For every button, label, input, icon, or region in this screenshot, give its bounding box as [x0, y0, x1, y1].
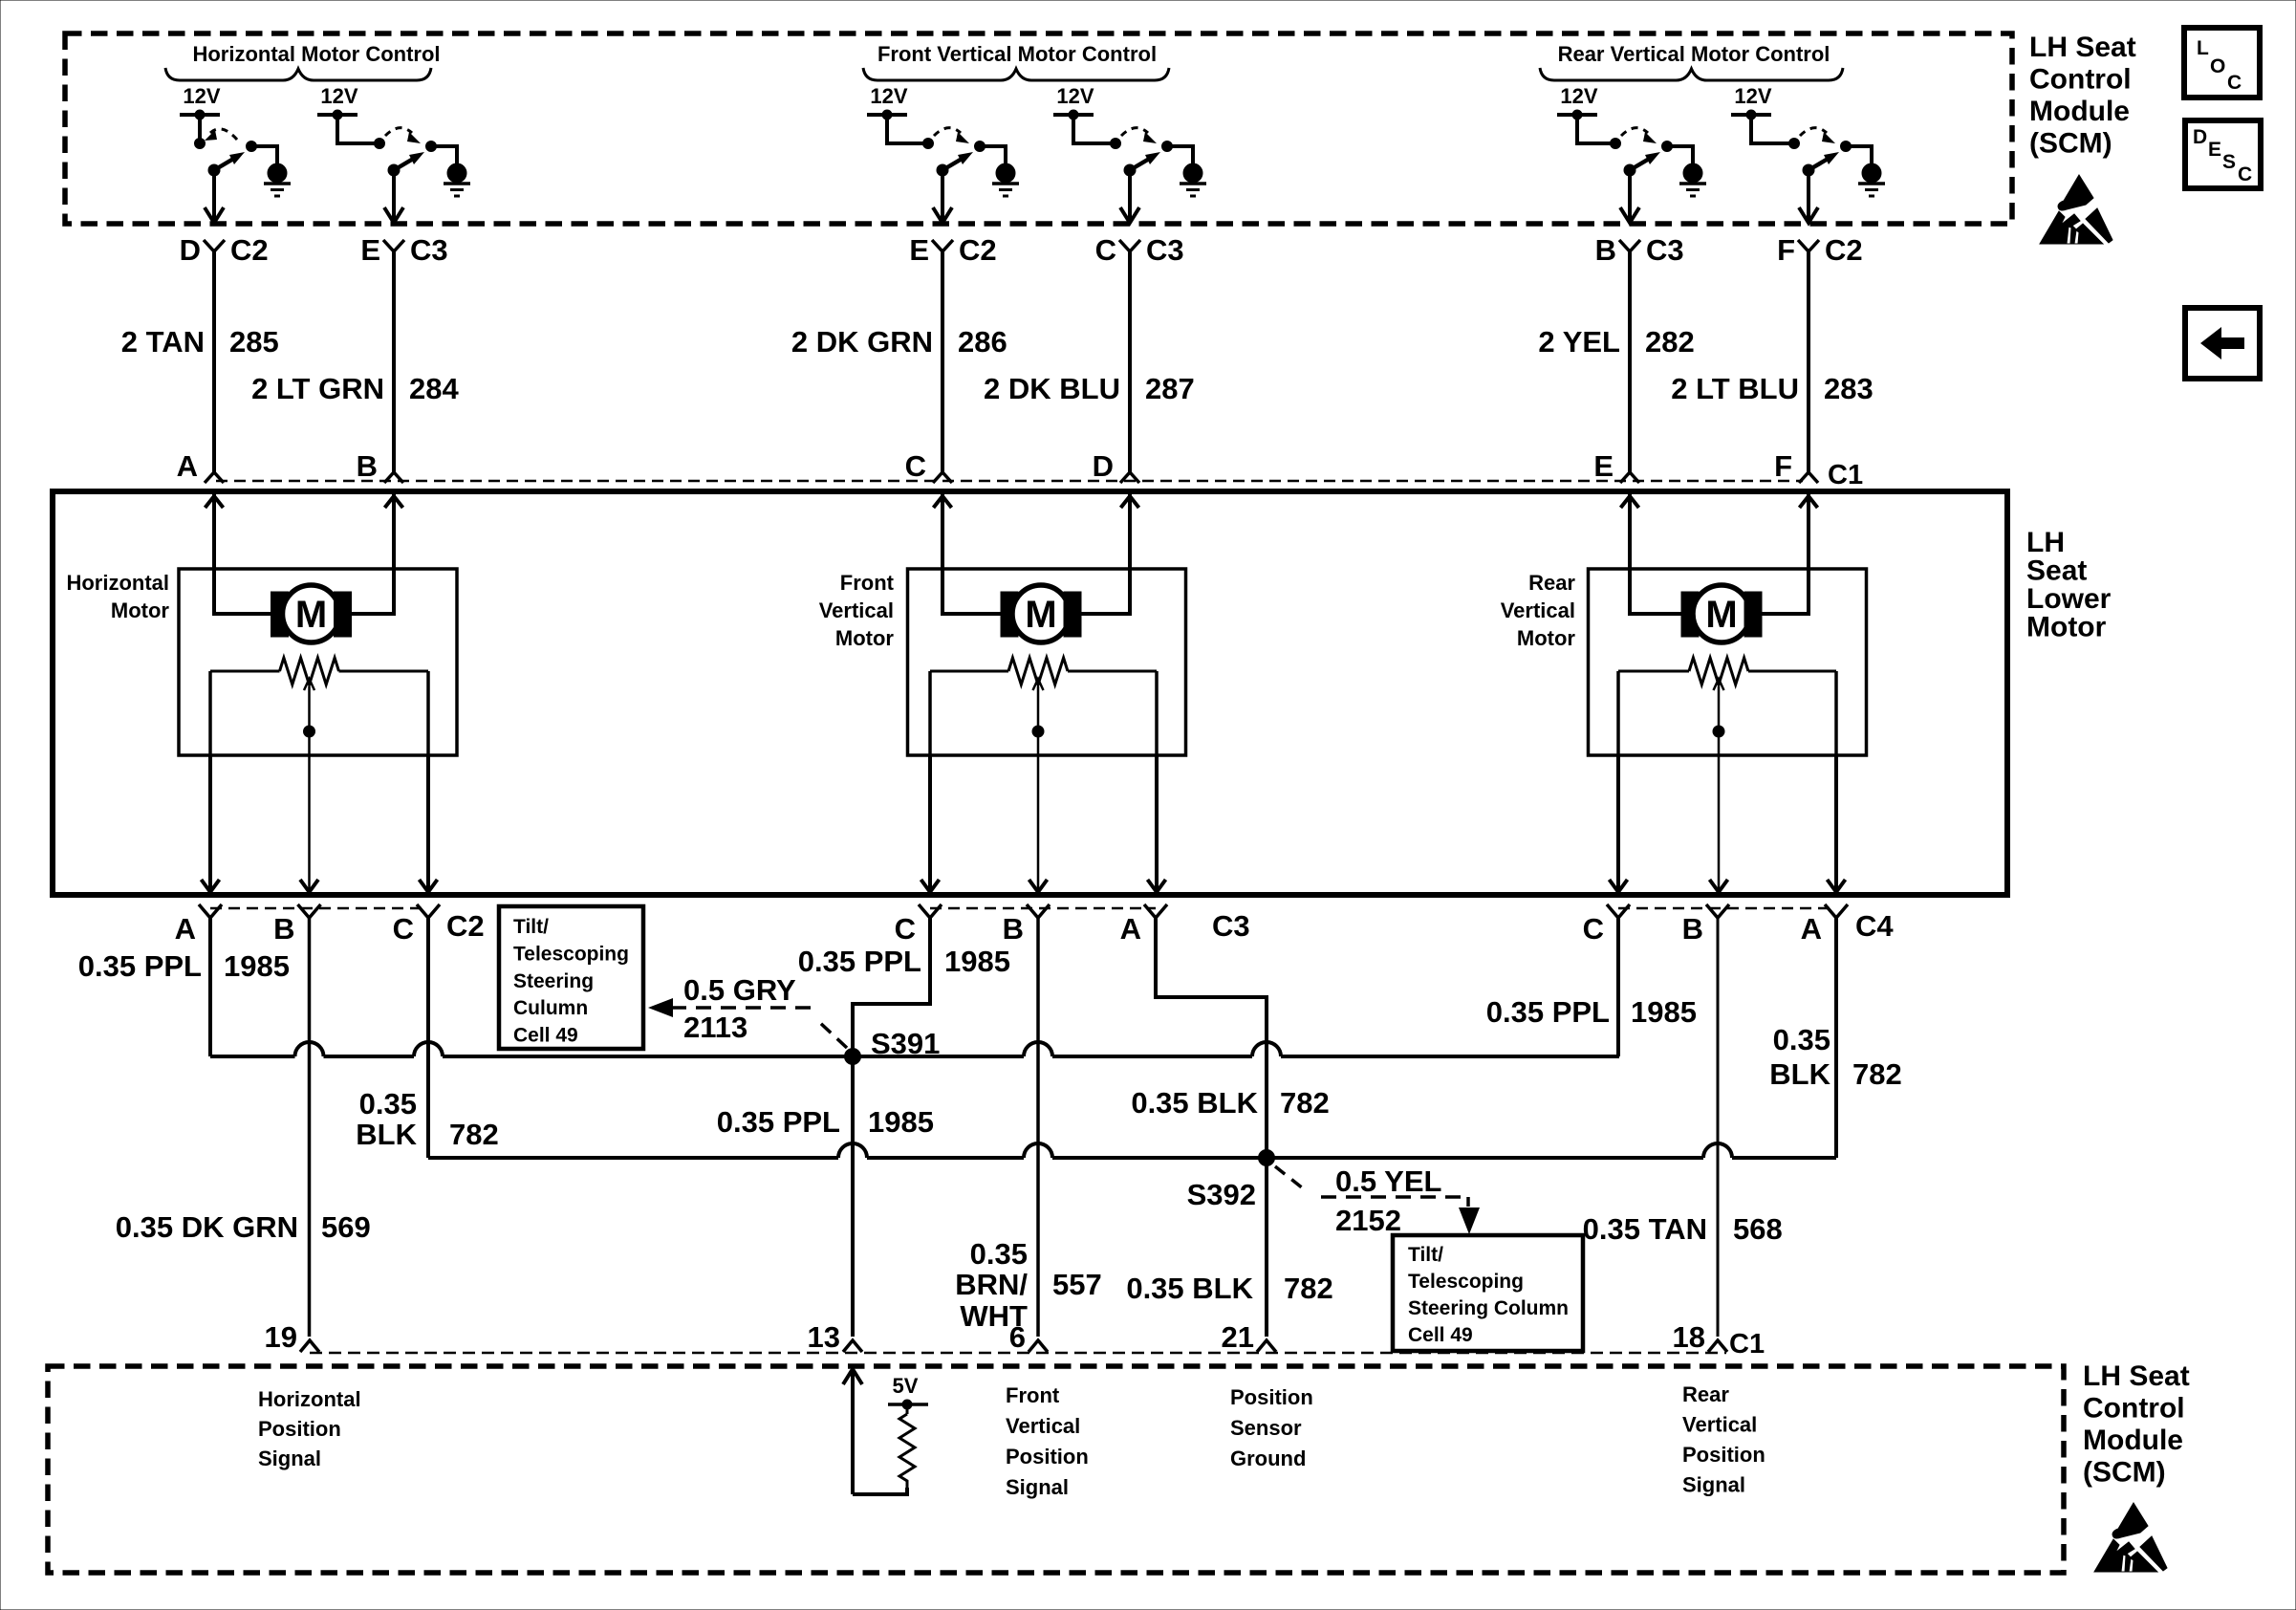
svg-text:C: C: [1095, 233, 1116, 267]
svg-text:C1: C1: [1828, 460, 1863, 490]
module box: LH Seat Control Module (SCM) top: [65, 33, 2012, 224]
svg-text:Motor: Motor: [111, 598, 170, 622]
brace under Front Vertical Motor Control: [863, 68, 1169, 80]
svg-text:Position: Position: [258, 1417, 341, 1441]
switch front vertical motor control switch 2 pivot contact: [1111, 139, 1121, 149]
ESD sensitive device symbol (top): [2040, 175, 2112, 244]
Horizontal Motor pot left leg: [208, 671, 212, 755]
svg-text:1985: 1985: [944, 945, 1010, 978]
connector C1 line (SCM bottom): [310, 1352, 1726, 1355]
Horizontal Motor sensor output wires to connector: [208, 755, 212, 889]
ground symbol at switch rear vertical motor control switch 1: [1683, 163, 1702, 183]
wire 2 LT GRN 284: [392, 251, 396, 472]
svg-text:Tilt/: Tilt/: [1408, 1244, 1443, 1266]
wire from pin to Front Vertical Motor + terminal: [942, 494, 1003, 614]
wire from 12V to switch pivot: [1073, 115, 1116, 143]
switch rear vertical motor control switch 2 blade (movable arm): [1803, 164, 1814, 176]
switch rear vertical motor control switch 1 movement dashed arc: [1621, 128, 1648, 136]
wire from switch front vertical motor control switch 2 blade to module pin: [1128, 170, 1132, 220]
connector pin C of C4: [1607, 904, 1630, 918]
svg-text:19: 19: [265, 1320, 297, 1354]
wire entering motor box (arrow): [206, 496, 224, 508]
12V feed bar and node for rear vertical motor control switch 2: [1731, 113, 1771, 117]
connector pin D of C1 (motor harness): [1120, 472, 1139, 483]
wire into SCM pin 13 (arrow): [843, 1369, 862, 1384]
svg-text:18: 18: [1673, 1320, 1705, 1354]
wire from pin to Rear Vertical Motor + terminal: [1630, 494, 1683, 614]
svg-text:Horizontal: Horizontal: [66, 571, 169, 595]
wire entering motor box (arrow): [934, 496, 952, 508]
wire 0.35 BLK 782 from C2-C: [426, 917, 430, 1158]
Horizontal Motor housing: [179, 569, 457, 755]
wire 0.35 BLK 782 from C4-A: [1834, 917, 1838, 1158]
svg-text:E: E: [1593, 449, 1614, 483]
switch rear vertical motor control switch 1 normally-closed contact to ground: [1662, 141, 1673, 152]
svg-text:A: A: [177, 449, 198, 483]
wire entering motor box (arrow): [385, 496, 403, 508]
connector pin C of C3 (SCM output): [1119, 240, 1140, 251]
svg-text:Front Vertical Motor Control: Front Vertical Motor Control: [877, 42, 1157, 66]
svg-text:Motor: Motor: [2026, 612, 2107, 643]
switch front vertical motor control switch 2 movement dashed arc: [1121, 128, 1148, 136]
Rear Vertical Motor housing: [1589, 569, 1867, 755]
svg-text:12V: 12V: [870, 84, 907, 108]
wire from 12V to switch pivot: [198, 115, 202, 143]
ground symbol at switch horizontal motor control switch 1: [268, 163, 287, 183]
wire from Horizontal Motor right terminal to pin: [352, 494, 395, 614]
svg-text:2113: 2113: [683, 1011, 747, 1044]
wire from switch rear vertical motor control switch 1 blade to module pin: [1628, 170, 1632, 220]
connector pin E of C1 (motor harness): [1620, 472, 1639, 483]
svg-text:Rear: Rear: [1528, 571, 1575, 595]
switch horizontal motor control switch 1 pivot contact: [195, 139, 206, 149]
svg-text:C: C: [393, 912, 414, 946]
connector pin E of C3 (SCM output): [383, 240, 404, 251]
connector pin E of C2 (SCM output): [932, 240, 953, 251]
brace under Rear Vertical Motor Control: [1540, 68, 1843, 80]
wire from 12V to switch pivot: [1751, 115, 1794, 143]
wire from Front Vertical Motor right terminal to pin: [1081, 494, 1130, 614]
connector pin 6 of SCM C1: [1029, 1340, 1048, 1352]
connector pin B of C2: [298, 904, 321, 918]
svg-text:Signal: Signal: [258, 1447, 321, 1470]
ground symbol at switch front vertical motor control switch 2: [1183, 163, 1202, 183]
svg-text:Cell 49: Cell 49: [513, 1025, 578, 1047]
reference box: Tilt/Telescoping Steering Column Cell 49 (right): [1393, 1235, 1583, 1351]
switch horizontal motor control switch 1 blade (movable arm): [208, 164, 220, 176]
wire 2 DK GRN 286: [941, 251, 944, 472]
svg-text:0.35 PPL: 0.35 PPL: [717, 1105, 840, 1139]
back-arrow navigation box: [2185, 308, 2260, 379]
pull-up resistor R (SCM internal): [906, 1404, 909, 1414]
switch horizontal motor control switch 2 movement dashed arc: [385, 128, 412, 136]
12V feed bar and node for horizontal motor control switch 2: [317, 113, 357, 117]
svg-text:Position: Position: [1230, 1385, 1313, 1409]
wire 0.35 DK GRN 569 (horizontal position signal): [308, 917, 312, 1337]
svg-text:12V: 12V: [1734, 84, 1771, 108]
svg-text:557: 557: [1052, 1268, 1102, 1301]
wire entering motor box (arrow): [1800, 496, 1818, 508]
svg-text:Vertical: Vertical: [819, 598, 894, 622]
motor M Rear Vertical Motor: [1693, 585, 1750, 642]
svg-text:Culumn: Culumn: [513, 997, 588, 1019]
svg-text:Steering Column: Steering Column: [1408, 1297, 1569, 1319]
svg-text:Rear: Rear: [1682, 1382, 1729, 1406]
wire 0.35 PPL 1985 from C2-A: [208, 917, 212, 1056]
svg-text:Position: Position: [1682, 1443, 1765, 1467]
svg-text:C3: C3: [1646, 233, 1684, 267]
svg-text:M: M: [295, 594, 327, 636]
switch front vertical motor control switch 2 normally-closed contact to ground: [1162, 141, 1173, 152]
svg-text:Vertical: Vertical: [1682, 1413, 1757, 1437]
Rear Vertical Motor position sensor potentiometer: [1618, 670, 1689, 673]
motor M Horizontal Motor: [283, 585, 340, 642]
brace under Horizontal Motor Control: [165, 68, 431, 80]
svg-text:782: 782: [1280, 1086, 1330, 1120]
svg-text:0.35: 0.35: [1773, 1023, 1830, 1056]
svg-text:F: F: [1774, 449, 1792, 483]
wire from pin to Horizontal Motor + terminal: [214, 494, 273, 614]
svg-text:LH: LH: [2026, 527, 2065, 558]
svg-text:M: M: [1705, 594, 1737, 636]
connector pin C of C1 (motor harness): [933, 472, 952, 483]
switch rear vertical motor control switch 2 pivot contact: [1789, 139, 1800, 149]
svg-text:A: A: [1801, 912, 1822, 946]
svg-text:C: C: [2227, 72, 2242, 94]
svg-text:282: 282: [1645, 325, 1695, 359]
svg-text:0.35 PPL: 0.35 PPL: [798, 945, 921, 978]
svg-text:2 DK GRN: 2 DK GRN: [791, 325, 933, 359]
svg-text:E: E: [2208, 139, 2221, 161]
wire from 12V to switch pivot: [337, 115, 379, 143]
wire 0.35 BRN/WHT 557 (front vertical position signal): [1036, 917, 1040, 1337]
svg-text:782: 782: [1852, 1057, 1902, 1091]
switch rear vertical motor control switch 1 blade (movable arm): [1624, 164, 1635, 176]
svg-text:D: D: [180, 233, 201, 267]
svg-text:782: 782: [1284, 1272, 1333, 1305]
DESC reference box: [2185, 120, 2261, 188]
connector pin 13 of SCM C1: [843, 1340, 862, 1352]
svg-text:782: 782: [449, 1118, 499, 1151]
svg-text:Signal: Signal: [1006, 1475, 1069, 1499]
wire 2 DK BLU 287: [1128, 251, 1132, 472]
svg-text:0.35 DK GRN: 0.35 DK GRN: [116, 1210, 298, 1244]
svg-text:C3: C3: [1146, 233, 1184, 267]
bus wire PPL 1985 (net to S391): [210, 1055, 295, 1058]
wire from resistor to pin 13 net: [853, 1488, 907, 1494]
connector pin B of C3 (SCM output): [1619, 240, 1640, 251]
svg-text:M: M: [1025, 594, 1056, 636]
svg-text:0.5 YEL: 0.5 YEL: [1335, 1164, 1441, 1198]
Rear Vertical Motor sensor output wires to connector: [1616, 755, 1620, 889]
svg-text:Horizontal: Horizontal: [258, 1387, 361, 1411]
svg-text:Position: Position: [1006, 1445, 1089, 1469]
wire entering motor box (arrow): [1121, 496, 1139, 508]
connector pin B of C1 (motor harness): [384, 472, 403, 483]
svg-text:21: 21: [1222, 1320, 1254, 1354]
svg-text:D: D: [2193, 126, 2207, 148]
Horizontal Motor pot right leg: [426, 671, 430, 755]
ESD sensitive device symbol (bottom): [2094, 1503, 2167, 1572]
connector pin A of C4: [1825, 904, 1848, 918]
wire 2 LT BLU 283: [1807, 251, 1810, 472]
wire from 12V to switch pivot: [1577, 115, 1615, 143]
svg-text:569: 569: [321, 1210, 371, 1244]
svg-text:E: E: [909, 233, 929, 267]
12V feed bar and node for horizontal motor control switch 1: [180, 113, 220, 117]
svg-text:BLK: BLK: [356, 1118, 417, 1151]
svg-text:Tilt/: Tilt/: [513, 916, 549, 938]
switch horizontal motor control switch 2 blade (movable arm): [388, 164, 400, 176]
svg-text:C2: C2: [959, 233, 997, 267]
connector C2 line: [210, 907, 428, 910]
svg-text:C: C: [905, 449, 926, 483]
svg-text:F: F: [1777, 233, 1795, 267]
svg-text:0.35 BLK: 0.35 BLK: [1126, 1272, 1253, 1305]
svg-text:5V: 5V: [893, 1374, 919, 1398]
svg-text:6: 6: [1009, 1320, 1026, 1354]
connector pin C of C2: [417, 904, 440, 918]
switch horizontal motor control switch 2 normally-closed contact to ground: [426, 141, 437, 152]
svg-text:568: 568: [1733, 1212, 1783, 1246]
svg-text:1985: 1985: [224, 949, 290, 983]
svg-text:O: O: [2210, 55, 2225, 77]
wire entering motor box (arrow): [1621, 496, 1639, 508]
svg-text:Control: Control: [2083, 1393, 2185, 1425]
svg-text:Cell 49: Cell 49: [1408, 1324, 1473, 1346]
svg-text:13: 13: [808, 1320, 840, 1354]
svg-text:B: B: [273, 912, 294, 946]
bus wire BLK 782 (ground net to S392): [428, 1156, 838, 1160]
svg-text:E: E: [360, 233, 380, 267]
Front Vertical Motor housing: [908, 569, 1186, 755]
wire from switch horizontal motor control switch 1 blade to module pin: [212, 170, 216, 220]
wire 0.35 TAN 568 (rear vertical position signal): [1717, 917, 1720, 1337]
svg-text:0.5 GRY: 0.5 GRY: [683, 973, 796, 1007]
connector C4 line: [1618, 907, 1836, 910]
switch horizontal motor control switch 1 normally-closed contact to ground: [247, 141, 257, 152]
Front Vertical Motor position sensor potentiometer: [930, 670, 1008, 673]
svg-text:BLK: BLK: [1769, 1057, 1830, 1091]
svg-text:285: 285: [229, 325, 279, 359]
splice S391: [845, 1049, 861, 1065]
switch front vertical motor control switch 1 normally-closed contact to ground: [975, 141, 986, 152]
svg-text:Front: Front: [840, 571, 895, 595]
connector pin A of C2: [199, 904, 222, 918]
Rear Vertical Motor pot left leg: [1616, 671, 1620, 755]
svg-text:(SCM): (SCM): [2029, 128, 2112, 160]
svg-text:S392: S392: [1187, 1178, 1256, 1211]
svg-text:B: B: [357, 449, 378, 483]
svg-text:Ground: Ground: [1230, 1447, 1306, 1470]
connector pin C of C3: [919, 904, 942, 918]
svg-text:(SCM): (SCM): [2083, 1457, 2166, 1489]
wire from Rear Vertical Motor right terminal to pin: [1762, 494, 1809, 614]
svg-text:Steering: Steering: [513, 970, 594, 992]
svg-text:12V: 12V: [1056, 84, 1094, 108]
svg-text:2 YEL: 2 YEL: [1538, 325, 1620, 359]
connector C1 line (LH Seat Lower Motor): [216, 480, 1803, 483]
Rear Vertical Motor right brush block: [1744, 592, 1762, 637]
ground symbol at switch front vertical motor control switch 1: [996, 163, 1015, 183]
svg-text:12V: 12V: [320, 84, 357, 108]
svg-text:Seat: Seat: [2026, 555, 2087, 587]
Front Vertical Motor pot left leg: [928, 671, 932, 755]
svg-text:Telescoping: Telescoping: [513, 943, 629, 965]
svg-text:S: S: [2222, 151, 2236, 173]
Horizontal Motor right brush block: [335, 592, 352, 637]
Horizontal Motor pot wiper: [308, 686, 311, 731]
svg-text:283: 283: [1824, 372, 1874, 405]
svg-text:A: A: [1120, 912, 1141, 946]
svg-text:C1: C1: [1729, 1329, 1765, 1360]
splice S392: [1259, 1150, 1275, 1166]
svg-text:C: C: [1583, 912, 1604, 946]
Front Vertical Motor pot wiper: [1037, 686, 1040, 731]
reference box: Tilt/Telescoping Steering Column Cell 49 (left): [499, 906, 643, 1049]
Front Vertical Motor sensor output wires to connector: [928, 755, 932, 889]
svg-text:BRN/: BRN/: [955, 1268, 1028, 1301]
Front Vertical Motor left brush block: [1001, 592, 1018, 637]
svg-text:C: C: [895, 912, 916, 946]
svg-text:Vertical: Vertical: [1501, 598, 1575, 622]
switch horizontal motor control switch 2 pivot contact: [375, 139, 385, 149]
connector pin 18 of SCM C1: [1708, 1340, 1727, 1352]
wire BLK 782 from S392 to SCM pin 21 (position sensor ground): [1265, 1158, 1268, 1337]
connector pin A of C3: [1144, 904, 1167, 918]
svg-text:0.35 BLK: 0.35 BLK: [1131, 1086, 1258, 1120]
wire 0.35 PPL 1985 from C4-C: [1616, 917, 1620, 1056]
svg-text:12V: 12V: [1560, 84, 1597, 108]
connector pin F of C1 (motor harness): [1799, 472, 1818, 483]
svg-text:2 TAN: 2 TAN: [121, 325, 205, 359]
svg-text:Front: Front: [1006, 1383, 1060, 1407]
Rear Vertical Motor pot right leg: [1834, 671, 1838, 755]
svg-text:C: C: [2238, 163, 2252, 185]
svg-text:Telescoping: Telescoping: [1408, 1271, 1524, 1293]
svg-text:Module: Module: [2029, 96, 2130, 127]
Front Vertical Motor pot right leg: [1155, 671, 1159, 755]
svg-text:LH Seat: LH Seat: [2083, 1360, 2190, 1392]
switch front vertical motor control switch 2 blade (movable arm): [1124, 164, 1136, 176]
svg-text:B: B: [1595, 233, 1616, 267]
svg-text:B: B: [1003, 912, 1024, 946]
LOC reference box: [2184, 28, 2260, 98]
svg-text:Lower: Lower: [2026, 583, 2112, 615]
switch front vertical motor control switch 1 movement dashed arc: [934, 128, 961, 136]
svg-text:C3: C3: [1212, 909, 1250, 943]
12V feed bar and node for rear vertical motor control switch 1: [1557, 113, 1597, 117]
svg-text:1985: 1985: [1631, 995, 1697, 1029]
wire 2 TAN 285: [212, 251, 216, 472]
switch rear vertical motor control switch 1 pivot contact: [1611, 139, 1621, 149]
wire from switch rear vertical motor control switch 2 blade to module pin: [1807, 170, 1810, 220]
svg-text:0.35 PPL: 0.35 PPL: [78, 949, 202, 983]
motor M Front Vertical Motor: [1012, 585, 1070, 642]
svg-text:A: A: [175, 912, 196, 946]
connector C3 line: [930, 907, 1156, 910]
svg-text:Vertical: Vertical: [1006, 1414, 1080, 1438]
svg-text:Signal: Signal: [1682, 1473, 1745, 1497]
switch front vertical motor control switch 1 blade (movable arm): [937, 164, 948, 176]
svg-text:284: 284: [409, 372, 459, 405]
Rear Vertical Motor left brush block: [1681, 592, 1699, 637]
connector pin F of C2 (SCM output): [1798, 240, 1819, 251]
svg-text:0.35 TAN: 0.35 TAN: [1583, 1212, 1707, 1246]
svg-text:0.35 PPL: 0.35 PPL: [1486, 995, 1610, 1029]
wire from 12V to switch pivot: [887, 115, 928, 143]
svg-text:2152: 2152: [1335, 1204, 1401, 1237]
Horizontal Motor position sensor potentiometer: [210, 670, 280, 673]
Rear Vertical Motor pot wiper: [1718, 686, 1721, 731]
svg-text:Motor: Motor: [1517, 626, 1576, 650]
switch rear vertical motor control switch 2 movement dashed arc: [1800, 128, 1827, 136]
svg-text:2 LT BLU: 2 LT BLU: [1671, 372, 1799, 405]
svg-text:D: D: [1093, 449, 1114, 483]
Horizontal Motor left brush block: [271, 592, 289, 637]
Front Vertical Motor right brush block: [1064, 592, 1081, 637]
svg-text:286: 286: [958, 325, 1007, 359]
connector pin B of C3: [1027, 904, 1050, 918]
wire from switch horizontal motor control switch 2 blade to module pin: [392, 170, 396, 220]
svg-text:2 DK BLU: 2 DK BLU: [984, 372, 1120, 405]
svg-text:C2: C2: [446, 909, 485, 943]
switch rear vertical motor control switch 2 normally-closed contact to ground: [1841, 141, 1852, 152]
connector pin 19 of SCM C1: [300, 1340, 319, 1352]
svg-text:C2: C2: [1825, 233, 1863, 267]
svg-text:B: B: [1682, 912, 1703, 946]
module box: LH Seat Control Module (SCM) bottom: [48, 1366, 2064, 1573]
svg-text:0.35: 0.35: [359, 1087, 417, 1120]
svg-text:Module: Module: [2083, 1425, 2183, 1456]
svg-text:0.35: 0.35: [970, 1237, 1028, 1271]
svg-text:Horizontal Motor Control: Horizontal Motor Control: [192, 42, 440, 66]
svg-text:C3: C3: [410, 233, 448, 267]
connector pin D of C2 (SCM output): [204, 240, 225, 251]
12V feed bar and node for front vertical motor control switch 1: [867, 113, 907, 117]
connector pin B of C4: [1706, 904, 1729, 918]
wire 2 YEL 282: [1628, 251, 1632, 472]
wire 0.35 BLK 782 from C3-A to S392: [1156, 917, 1267, 1158]
switch horizontal motor control switch 1 movement dashed arc: [210, 129, 237, 140]
svg-text:Motor: Motor: [835, 626, 895, 650]
svg-text:12V: 12V: [183, 84, 220, 108]
svg-text:C2: C2: [230, 233, 269, 267]
svg-text:S391: S391: [871, 1027, 940, 1060]
12V feed bar and node for front vertical motor control switch 2: [1053, 113, 1094, 117]
component box: LH Seat Lower Motor: [53, 491, 2007, 895]
connector pin 21 of SCM C1: [1257, 1340, 1276, 1352]
ground symbol at switch rear vertical motor control switch 2: [1862, 163, 1881, 183]
svg-text:Sensor: Sensor: [1230, 1416, 1302, 1440]
wire PPL 1985 from S391 to SCM pin 13: [851, 1056, 855, 1337]
svg-text:2 LT GRN: 2 LT GRN: [251, 372, 384, 405]
connector pin A of C1 (motor harness): [205, 472, 224, 483]
wire from switch front vertical motor control switch 1 blade to module pin: [941, 170, 944, 220]
svg-text:1985: 1985: [868, 1105, 934, 1139]
switch front vertical motor control switch 1 pivot contact: [923, 139, 934, 149]
svg-text:Rear Vertical Motor Control: Rear Vertical Motor Control: [1558, 42, 1830, 66]
5V supply bar and node: [888, 1403, 928, 1406]
wire 0.35 PPL 1985 from C3-C to S391: [853, 917, 930, 1056]
svg-text:Control: Control: [2029, 64, 2132, 96]
svg-text:L: L: [2197, 37, 2209, 59]
svg-text:287: 287: [1145, 372, 1195, 405]
svg-text:C4: C4: [1855, 909, 1894, 943]
svg-text:LH Seat: LH Seat: [2029, 32, 2136, 63]
ground symbol at switch horizontal motor control switch 2: [447, 163, 466, 183]
